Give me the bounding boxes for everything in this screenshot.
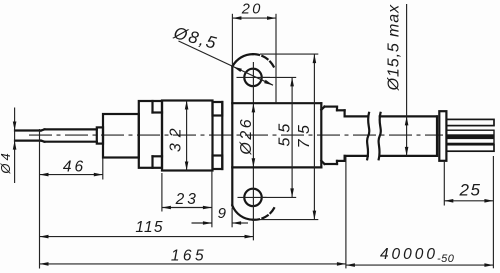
rod collar	[97, 127, 103, 143]
wire 2 middle	[446, 130, 494, 143]
svg-text:Ø26: Ø26	[238, 117, 255, 156]
body block B	[139, 101, 162, 168]
ferrule	[439, 111, 446, 161]
wire 1 top	[446, 119, 494, 125]
dim 20	[232, 2, 276, 20]
dim 23	[162, 191, 212, 209]
dim D8.5 leader	[171, 23, 273, 85]
svg-text:40000: 40000	[380, 246, 438, 263]
dim 25	[444, 180, 493, 202]
svg-text:25: 25	[459, 180, 482, 199]
bottom hole centerline	[238, 196, 267, 198]
rod 46mm section	[45, 129, 97, 141]
svg-text:165: 165	[171, 247, 207, 264]
ext 23/9 shared	[211, 171, 213, 227]
break line 2	[379, 113, 381, 160]
ext 20 right	[275, 14, 277, 103]
ext 23 left	[161, 173, 163, 212]
svg-text:Ø15,5 max: Ø15,5 max	[386, 4, 403, 91]
dim 165	[40, 247, 346, 265]
ext 20 left	[231, 14, 233, 66]
svg-text:9: 9	[218, 205, 227, 222]
svg-text:75: 75	[296, 120, 313, 149]
dim D4 line	[14, 108, 16, 184]
dim 32	[168, 101, 189, 171]
svg-text:46: 46	[63, 159, 86, 176]
svg-text:23: 23	[175, 191, 199, 208]
flange plate left edge	[221, 102, 223, 169]
chamfered collar	[321, 107, 337, 164]
top ear arc	[233, 54, 254, 66]
dim 115	[40, 219, 254, 238]
electrode tip rod	[15, 129, 45, 141]
dim 55	[261, 77, 296, 197]
ext line right	[492, 156, 494, 268]
flange plate right edge	[231, 66, 233, 205]
dim 40000-50	[346, 246, 494, 267]
dim 75	[260, 54, 318, 220]
dim D26 arrows	[238, 103, 255, 167]
dim D15.5 max	[386, 4, 409, 156]
dim 46	[40, 159, 103, 177]
right tabs	[213, 102, 223, 116]
svg-text:32: 32	[168, 122, 185, 152]
svg-text:Ø4: Ø4	[0, 150, 13, 174]
bottom ear arc	[232, 205, 253, 219]
ext 9 right	[231, 208, 233, 228]
cable section 1	[345, 116, 368, 155]
ext line 25 left	[443, 161, 445, 206]
ext line 165/40000	[345, 157, 347, 268]
svg-text:115: 115	[135, 219, 163, 236]
collar B	[337, 110, 345, 161]
centerline	[29, 134, 443, 136]
svg-text:20: 20	[241, 2, 263, 18]
ext line left long	[39, 129, 41, 269]
cable section 2	[380, 116, 437, 155]
svg-text:-50: -50	[437, 253, 455, 265]
body block A	[103, 114, 139, 158]
svg-text:55: 55	[277, 119, 294, 147]
ext line 46 right	[102, 159, 104, 180]
cylinder D26	[232, 103, 321, 167]
main cylinder 32 section	[162, 101, 213, 171]
bottom ear arc hidden	[253, 207, 275, 219]
bottom ear hole	[244, 189, 261, 206]
top ear arc hidden	[253, 54, 274, 67]
wire 3 bottom	[446, 145, 494, 152]
top hole centerline	[237, 76, 271, 78]
top ear hole	[244, 69, 261, 86]
break line 1	[367, 113, 369, 160]
ear axis / dim line	[252, 62, 254, 240]
dim 9	[192, 205, 249, 225]
